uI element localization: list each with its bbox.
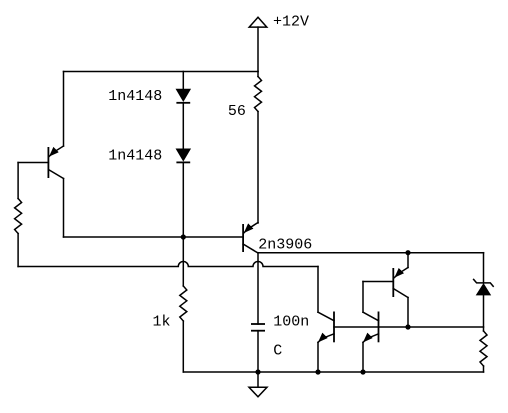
wire Q1 collector down: [63, 179, 65, 238]
resistor 1k: [180, 286, 187, 321]
transistor Q1 PNP left: [47, 147, 49, 178]
svg-text:1n4148: 1n4148: [108, 148, 162, 165]
wire shared base line: [334, 326, 484, 328]
wire left column upper: [17, 163, 19, 199]
wire Q1 emitter up: [63, 72, 65, 147]
svg-text:56: 56: [228, 103, 246, 120]
svg-text:1k: 1k: [153, 313, 171, 330]
wire R56 top stub: [257, 72, 259, 77]
wire Q4 collector up: [317, 267, 319, 313]
transistor Q2 2n3906 PNP: [242, 224, 244, 252]
wire Q2 collector down: [257, 253, 259, 324]
node junction dot base node: [181, 234, 186, 239]
wire diode column top: [182, 72, 184, 90]
svg-text:100n: 100n: [273, 314, 309, 331]
resistor left: [15, 199, 22, 234]
node junction dot Q4 emitter ground: [315, 369, 320, 374]
diode D1 1n4148: [176, 89, 190, 101]
node junction dot Q3 emitter: [405, 250, 410, 255]
svg-text:+12V: +12V: [273, 14, 309, 31]
wire zener column top: [483, 253, 485, 283]
wire capacitor bottom: [257, 331, 259, 372]
wire Q3 emitter up: [407, 253, 409, 268]
transistor Q4 NPN left: [333, 312, 335, 343]
svg-text:C: C: [273, 343, 282, 360]
svg-text:2n3906: 2n3906: [258, 237, 312, 254]
node junction dot cap ground: [255, 369, 260, 374]
wire long feedback with hops: [18, 262, 318, 267]
wire Q3 base left: [363, 281, 393, 283]
wire diode column bottom: [182, 162, 184, 237]
wire zener to resistor: [483, 295, 485, 331]
wire Q2 base: [183, 236, 243, 238]
capacitor C 100n: [251, 323, 265, 325]
transistor Q5 NPN right: [378, 312, 380, 343]
wire top rail: [64, 71, 259, 73]
wire right column bottom: [483, 366, 485, 372]
wire Q1 base left: [18, 162, 48, 164]
wire ground rail: [183, 371, 483, 373]
wire between diodes: [182, 103, 184, 149]
transistor Q3 PNP right: [392, 268, 394, 297]
wire Q5 emitter down: [362, 342, 364, 372]
zener diode: [474, 279, 494, 286]
wire Q3 base down: [362, 282, 364, 313]
node junction dot mirror node: [405, 324, 410, 329]
ground symbol: [257, 372, 259, 387]
wire Q3 collector down: [407, 298, 409, 328]
node junction dot Q5 emitter ground: [360, 369, 365, 374]
resistor right: [480, 331, 487, 366]
wire left column lower: [17, 234, 19, 267]
svg-text:1n4148: 1n4148: [108, 88, 162, 105]
wire 1k column lower: [182, 321, 184, 372]
wire Q2 emitter up: [257, 112, 259, 224]
wire Q4 emitter down: [317, 342, 319, 372]
wire 1k column upper: [182, 237, 184, 286]
wire Q2 collector right rail: [258, 252, 484, 254]
diode D2 1n4148: [176, 149, 190, 161]
+12V supply symbol: [249, 17, 267, 27]
wire Q1 collector to node: [64, 236, 184, 238]
resistor 56: [255, 77, 262, 112]
wire +12V stem: [257, 27, 259, 71]
